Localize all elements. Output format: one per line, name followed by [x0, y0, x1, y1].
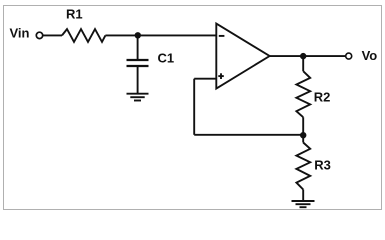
svg-text:R3: R3 — [314, 158, 331, 173]
svg-text:Vo: Vo — [362, 48, 378, 63]
node A junction dot — [135, 32, 141, 38]
wire — [194, 134, 303, 136]
wire — [302, 190, 304, 202]
input terminal — [36, 32, 42, 38]
resistor R3 — [296, 143, 331, 190]
wire — [194, 78, 216, 80]
node feedback junction — [300, 132, 306, 138]
node output junction — [300, 53, 306, 59]
wire — [105, 34, 216, 36]
svg-text:R1: R1 — [66, 7, 83, 22]
capacitor C1 — [127, 51, 175, 67]
resistor R1 — [62, 7, 105, 42]
wire — [270, 55, 346, 57]
op-amp U1 — [216, 24, 269, 89]
wire — [302, 117, 304, 142]
wire — [137, 35, 139, 60]
resistor R2 — [296, 71, 330, 117]
ground — [292, 201, 315, 207]
svg-text:R2: R2 — [314, 90, 331, 105]
wire — [137, 66, 139, 94]
svg-text:C1: C1 — [158, 51, 175, 66]
svg-text:Vin: Vin — [10, 26, 30, 41]
wire — [302, 56, 304, 71]
output terminal — [346, 53, 352, 59]
ground — [127, 94, 149, 101]
wire — [193, 79, 195, 135]
wire — [43, 34, 62, 36]
